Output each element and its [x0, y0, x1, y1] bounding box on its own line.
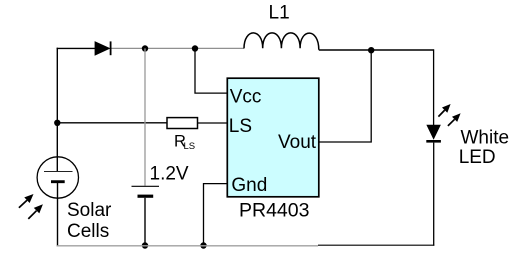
wire battery top (grey vertical): [144, 48, 146, 185]
wire resistor to LS pin: [198, 122, 228, 124]
svg-text:Vcc: Vcc: [230, 86, 262, 107]
svg-text:1.2V: 1.2V: [150, 164, 189, 185]
svg-text:Solar: Solar: [67, 200, 112, 221]
svg-text:L1: L1: [269, 2, 290, 23]
svg-text:Gnd: Gnd: [231, 175, 267, 196]
wire ground rail (black right section): [318, 244, 434, 246]
wire left vertical (top wire down to solar cell): [56, 48, 58, 172]
IC U1 PR4403: [227, 78, 318, 222]
wire LED cathode to ground rail: [433, 143, 435, 246]
wire diode cathode to inductor (grey): [112, 47, 245, 49]
node LS junction: [54, 120, 60, 126]
inductor L1: [244, 2, 319, 50]
svg-text:LS: LS: [184, 141, 196, 152]
battery BT1 1.2V: [132, 164, 189, 197]
node battery ground junction: [142, 242, 148, 248]
svg-text:LS: LS: [229, 116, 252, 137]
svg-text:Vout: Vout: [278, 132, 317, 153]
node Vcc junction: [192, 45, 198, 51]
resistor RLS: [167, 118, 198, 153]
diode D1: [95, 41, 111, 55]
svg-text:PR4403: PR4403: [239, 200, 309, 222]
wire Gnd pin to ground rail: [204, 184, 228, 247]
wire top-left horizontal (solar cells to diode anode): [57, 47, 95, 49]
LED D2 white: [426, 104, 509, 168]
solar cell PV1: [19, 157, 112, 242]
node Vout junction: [368, 47, 374, 53]
svg-text:LED: LED: [459, 147, 496, 168]
node battery top junction: [142, 45, 148, 51]
wire inductor to top-right corner: [319, 49, 434, 51]
svg-text:Cells: Cells: [67, 221, 109, 242]
wire ground rail (grey left section): [57, 245, 319, 247]
node IC ground junction: [200, 242, 206, 248]
wire battery bottom to ground rail: [144, 198, 146, 246]
wire LS horizontal left segment: [57, 122, 167, 124]
wire Vcc pin (top rail down and right): [195, 49, 228, 94]
svg-text:White: White: [461, 128, 510, 149]
wire solar cell bottom to ground rail: [57, 182, 59, 246]
wire Vout pin up to top rail: [319, 50, 371, 142]
wire right vertical (top rail down to LED anode): [433, 49, 435, 125]
